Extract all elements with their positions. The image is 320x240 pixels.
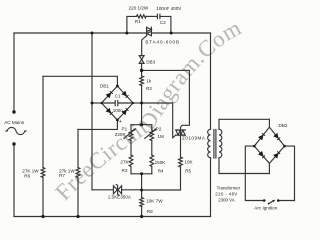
wire y76 horizontal [43, 76, 117, 86]
svg-text:R4: R4 [158, 168, 164, 173]
capacitor C1 [102, 101, 134, 106]
diode DB2 top-left [258, 135, 263, 141]
svg-text:C2: C2 [160, 20, 166, 25]
diode DB1 top-left [106, 93, 112, 99]
resistor R5 [179, 157, 183, 167]
resistor R1 [137, 15, 147, 18]
resistor R6 [41, 168, 45, 178]
wire top rail [14, 32, 211, 34]
svg-text:P2: P2 [156, 126, 162, 131]
junction R3 R4 bottom [140, 172, 143, 175]
diode DB1 top-right [121, 91, 127, 97]
svg-text:220 - 48V: 220 - 48V [215, 191, 237, 196]
junction pot network top [140, 123, 143, 126]
potentiometer P1 [130, 125, 132, 130]
wire bridge bottom to R7 [78, 120, 117, 129]
junction top rail / snubber left [125, 32, 128, 35]
svg-text:BTA40-600B: BTA40-600B [145, 40, 179, 45]
svg-text:R8: R8 [147, 209, 153, 214]
resistor R2 [141, 70, 143, 76]
snubber R1 C2 branch [127, 16, 137, 33]
resistor R8 [141, 190, 143, 198]
wire Z0109 gate from bridge-right node [142, 103, 176, 138]
svg-text:27K: 27K [120, 159, 129, 164]
bridge DB1 diamond [102, 86, 134, 120]
junction R7 bottom rail [76, 215, 79, 218]
svg-text:R7: R7 [59, 173, 65, 178]
wire R6 branch top [42, 76, 44, 167]
node A R2 / DB3 / Z0109 MT2 wire [140, 69, 143, 72]
wire pot network top [141, 103, 143, 125]
svg-text:AC Mains: AC Mains [4, 120, 25, 125]
potentiometer P2 [151, 125, 153, 130]
junction TVS / R5 / R8 [140, 189, 143, 192]
triac BTA40-600B [147, 27, 152, 36]
svg-text:R5: R5 [185, 168, 191, 173]
diode DB1 bottom-right [121, 110, 127, 116]
wire Z0109 MT2 path [181, 70, 190, 130]
wire secondary bottom to DB2 [219, 158, 269, 174]
TVS 1.5KE350A [113, 186, 121, 194]
AC source sine symbol [6, 127, 26, 134]
wire x92 vertical [91, 33, 93, 190]
wire primary bottom to rail [210, 158, 212, 217]
resistor R7 [76, 168, 80, 178]
svg-text:C1: C1 [115, 93, 121, 98]
junction DB1 top vertex [116, 85, 119, 88]
wire node A horizontal y70.5 [142, 69, 190, 71]
node AC mains upper terminal [12, 110, 15, 113]
svg-text:10K: 10K [184, 159, 193, 164]
diode DB2 top-right [273, 133, 278, 139]
svg-text:10K 7W: 10K 7W [146, 198, 163, 203]
transformer primary coil [208, 129, 211, 157]
svg-text:2300 VA: 2300 VA [218, 197, 234, 202]
wire bridge right lead [133, 102, 142, 104]
svg-text:R1: R1 [135, 19, 141, 24]
junction DB1 right vertex [132, 102, 134, 104]
triac Z0109MA [176, 130, 186, 135]
wire left vertical (AC mains branch) [13, 33, 15, 112]
P2 arrow [145, 129, 156, 139]
switch blade pivot [268, 203, 270, 205]
transformer secondary coil [219, 129, 222, 157]
P1 arrow [124, 129, 135, 139]
node B DB1 right vertex / R2 / gate wire [140, 102, 143, 105]
wire Z0109 MT1 to R5 [180, 135, 182, 157]
junction DB1 left vertex [100, 102, 102, 104]
wire DB2 right to switch [278, 146, 294, 200]
svg-text:220 1/2W: 220 1/2W [129, 6, 149, 11]
bridge DB2 diamond [254, 127, 284, 163]
diac DB3 [139, 56, 144, 64]
junction R6 bottom rail [41, 215, 44, 218]
svg-text:Transformer: Transformer [217, 185, 241, 190]
junction DB1 left vertex wire [91, 102, 94, 105]
svg-text:1M: 1M [157, 134, 164, 139]
svg-text:DB1: DB1 [100, 84, 109, 89]
svg-text:100n: 100n [113, 108, 124, 113]
svg-text:DB3: DB3 [146, 59, 155, 64]
svg-text:1k: 1k [146, 79, 152, 84]
svg-text:R6: R6 [24, 173, 30, 178]
svg-text:Z0109MA: Z0109MA [182, 136, 206, 141]
wire right rail to transformer primary [210, 33, 212, 129]
svg-text:R2: R2 [146, 86, 152, 91]
diode DB2 bottom-right [273, 153, 279, 159]
junction R8 bottom rail [140, 215, 143, 218]
capacitor C2 [157, 14, 160, 19]
svg-text:R3: R3 [122, 168, 128, 173]
junction DB2 left vertex [253, 145, 256, 148]
resistor R3 [129, 155, 133, 167]
node AC mains lower terminal [12, 142, 15, 145]
resistor R4 [150, 155, 154, 167]
switch contact right [277, 199, 280, 202]
wire DB2 left to switch [245, 146, 264, 200]
wire R3 R4 bottom join [131, 173, 152, 175]
transformer core [214, 130, 216, 159]
junction top rail / DB1 left branch [91, 32, 94, 35]
junction DB1 bottom vertex [116, 119, 119, 122]
wire bridge left lead [92, 102, 102, 104]
junction DB2 right vertex [283, 145, 286, 148]
wire secondary top to DB2 [219, 119, 269, 129]
diode DB2 bottom-left [258, 151, 264, 157]
svg-text:100nF 400V: 100nF 400V [156, 6, 182, 11]
svg-text:P1: P1 [122, 126, 128, 131]
switch contact left [263, 199, 266, 202]
svg-text:1.5KE350A: 1.5KE350A [108, 195, 132, 200]
junction top rail / snubber right [170, 32, 173, 35]
wire bottom rail [14, 216, 211, 218]
svg-text:DB2: DB2 [279, 123, 288, 128]
switch blade arrowhead [272, 200, 275, 203]
diode DB1 bottom-left [106, 108, 112, 114]
svg-text:+: + [119, 119, 122, 125]
svg-text:220K: 220K [115, 132, 127, 137]
wire BTA40 gate [142, 36, 147, 56]
svg-text:Arc Ignition: Arc Ignition [254, 206, 277, 211]
switch blade arc ignition [269, 201, 274, 204]
svg-text:150K: 150K [155, 160, 167, 165]
label Transformer 220 - 48V 2300 VA [215, 185, 240, 202]
